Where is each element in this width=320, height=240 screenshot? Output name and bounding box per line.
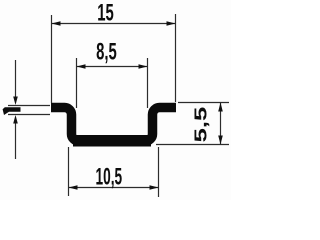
svg-text:5,5: 5,5 [191, 107, 211, 143]
dimension 15: left extension line [51, 15, 53, 103]
dimension 10,5: right extension line [158, 147, 160, 197]
svg-text:10,5: 10,5 [95, 164, 122, 191]
dimension 8,5: left arrowhead [77, 64, 86, 69]
DIN rail profile cross-section (hat channel) [51, 108, 176, 142]
dimension 1: label "1" (rotated, drawn as shape) [3, 107, 21, 115]
dimension 5,5: top extension line [178, 102, 229, 104]
dimension 10,5: right arrowhead [150, 185, 159, 190]
dimension 15: right extension line [175, 14, 177, 102]
dimension 15: left arrowhead [52, 21, 61, 26]
dimension 15: right arrowhead [167, 21, 176, 26]
dimension 1: top extension line [8, 105, 50, 107]
dimension 1: upper leader line with down arrowhead [15, 60, 17, 97]
dimension 5,5: dimension line [220, 103, 222, 145]
dimension 8,5: right arrowhead [139, 64, 148, 69]
dimension 10,5: left extension line [68, 147, 70, 196]
dimension 10,5: dimension line [69, 187, 159, 189]
svg-text:8,5: 8,5 [96, 39, 117, 65]
dimension 8,5: dimension line [77, 66, 148, 68]
dimension 8,5: left extension line [76, 58, 78, 108]
dimension 1: bottom extension line [8, 114, 50, 116]
dimension 5,5: top arrowhead [218, 103, 223, 112]
dimension 5,5: bottom extension line [156, 144, 229, 146]
rail profile bottom web (thicker) [73, 135, 151, 147]
svg-text:15: 15 [97, 0, 114, 26]
dimension 10,5: left arrowhead [69, 185, 78, 190]
dimension 5,5: bottom arrowhead [218, 136, 223, 145]
dimension 8,5: right extension line [147, 58, 149, 108]
dimension 15: dimension line [52, 23, 176, 25]
dimension 1: lower leader line with up arrowhead [15, 122, 17, 159]
